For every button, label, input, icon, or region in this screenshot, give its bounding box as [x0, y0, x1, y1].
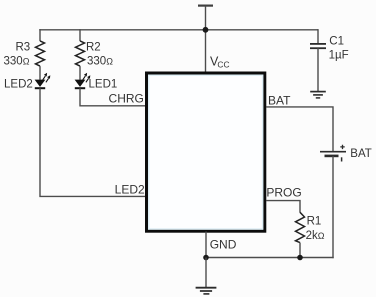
svg-text:LED2: LED2 — [115, 182, 145, 196]
label 2kohm — [306, 230, 325, 242]
wire R2 branch from rail — [79, 29, 81, 41]
ground under C1 — [310, 92, 326, 98]
capacitor C1 — [310, 44, 326, 48]
wire R2 to LED1 — [79, 66, 81, 80]
label C1 — [329, 36, 344, 48]
LED LED1 — [75, 73, 91, 88]
wire top VCC rail — [39, 29, 318, 31]
svg-text:CC: CC — [217, 59, 229, 69]
svg-text:330Ω: 330Ω — [4, 56, 30, 68]
svg-text:PROG: PROG — [266, 186, 301, 200]
svg-text:LED2: LED2 — [4, 79, 33, 91]
resistor R2 — [76, 41, 85, 66]
resistor R1 — [296, 212, 305, 242]
label R2 — [86, 41, 101, 53]
pin label PROG — [266, 186, 301, 200]
wire LED1 to IC pin CHRG — [80, 88, 145, 106]
ground main — [196, 288, 217, 294]
pin label GND — [210, 238, 237, 252]
svg-text:CHRG: CHRG — [109, 92, 144, 106]
svg-text:1µF: 1µF — [329, 49, 349, 61]
pin label LED2 — [115, 182, 145, 196]
wire rail to main ground — [205, 258, 207, 288]
wire PROG pin to R1 — [266, 201, 300, 213]
LED LED2 — [35, 73, 51, 88]
wire LED2 to IC pin LED2 — [40, 88, 145, 196]
svg-text:C1: C1 — [329, 36, 344, 48]
wire R1 to bottom rail — [299, 243, 301, 258]
label R3 — [16, 41, 31, 53]
wire GND pin to rail — [205, 232, 207, 258]
battery BAT — [320, 145, 346, 162]
label 330ohm R3 — [4, 56, 30, 68]
svg-text:GND: GND — [210, 238, 237, 252]
label LED2 component — [4, 79, 33, 91]
op-amp / charger IC U1 body — [147, 73, 265, 231]
label LED1 component — [89, 79, 118, 91]
svg-text:BAT: BAT — [350, 148, 372, 160]
junction dot VCC rail — [203, 27, 209, 33]
wire bottom ground rail — [206, 257, 334, 259]
wire rail to capacitor C1 — [317, 29, 319, 43]
power VCC symbol — [198, 6, 213, 72]
svg-text:R3: R3 — [16, 41, 31, 53]
svg-text:2kΩ: 2kΩ — [306, 230, 325, 242]
pin label BAT — [268, 93, 291, 107]
svg-text:LED1: LED1 — [89, 79, 118, 91]
junction dot GND rail — [203, 255, 209, 261]
pin label CHRG — [109, 92, 144, 106]
label 330ohm R2 — [87, 56, 113, 68]
svg-text:330Ω: 330Ω — [87, 56, 113, 68]
resistor R3 — [36, 41, 45, 66]
wire battery to bottom rail — [332, 156, 334, 258]
svg-text:BAT: BAT — [268, 93, 291, 107]
wire BAT pin to battery — [266, 107, 333, 151]
label 1uF — [329, 49, 349, 61]
pin label VCC — [210, 55, 230, 70]
svg-text:R1: R1 — [307, 216, 322, 228]
junction dot R1 rail — [297, 255, 303, 261]
label BAT battery — [350, 148, 372, 160]
wire C1 to ground — [317, 48, 319, 91]
wire R3 to LED2 — [39, 66, 41, 80]
wire R3 branch from rail — [39, 29, 41, 41]
svg-text:R2: R2 — [86, 41, 101, 53]
label R1 — [307, 216, 322, 228]
